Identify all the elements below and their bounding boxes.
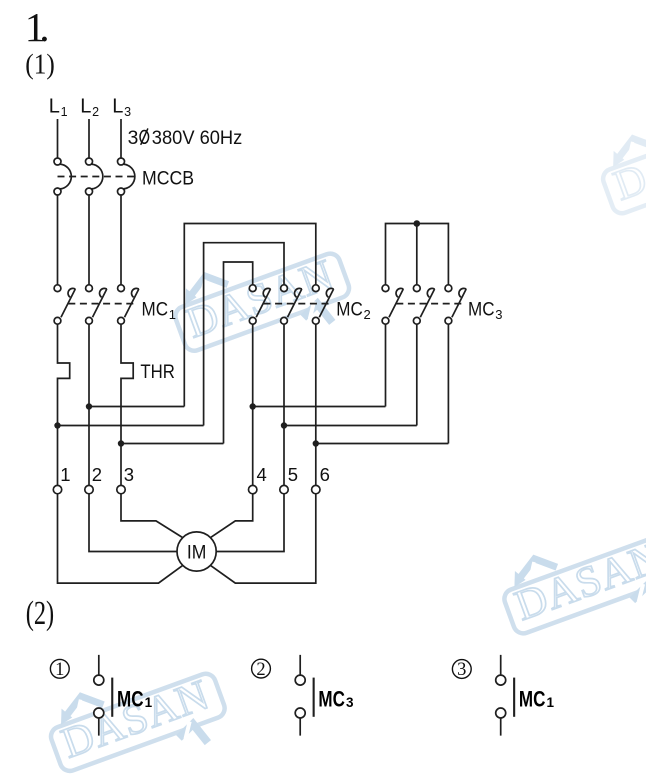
svg-text:1: 1	[60, 464, 70, 485]
svg-text:(2): (2)	[26, 595, 55, 632]
svg-text:L: L	[49, 95, 60, 117]
svg-text:3: 3	[124, 464, 134, 485]
svg-text:.: .	[39, 4, 49, 50]
svg-text:3: 3	[124, 105, 131, 119]
svg-text:L: L	[80, 95, 91, 117]
svg-text:3: 3	[495, 307, 502, 322]
svg-text:5: 5	[288, 464, 298, 485]
svg-text:3: 3	[346, 695, 354, 710]
svg-text:MC: MC	[336, 298, 363, 320]
svg-text:L: L	[112, 95, 123, 117]
svg-text:1: 1	[55, 660, 64, 680]
svg-text:MC: MC	[117, 687, 144, 712]
svg-text:1: 1	[169, 307, 176, 322]
svg-text:MC: MC	[519, 687, 546, 712]
svg-text:3: 3	[128, 128, 139, 149]
svg-text:6: 6	[320, 464, 330, 485]
svg-text:2: 2	[256, 660, 265, 680]
svg-text:MCCB: MCCB	[142, 168, 194, 190]
svg-text:2: 2	[92, 105, 99, 119]
svg-text:2: 2	[92, 464, 102, 485]
svg-text:(1): (1)	[25, 49, 55, 81]
svg-text:IM: IM	[187, 543, 207, 564]
svg-text:MC: MC	[142, 298, 169, 320]
svg-text:4: 4	[257, 464, 267, 485]
svg-text:MC: MC	[318, 687, 345, 712]
svg-text:THR: THR	[140, 361, 175, 383]
svg-text:2: 2	[364, 307, 371, 322]
svg-text:3: 3	[457, 660, 466, 680]
svg-text:1: 1	[547, 695, 555, 710]
svg-text:1: 1	[61, 105, 68, 119]
svg-text:380V 60Hz: 380V 60Hz	[152, 128, 243, 149]
svg-text:1: 1	[145, 695, 153, 710]
svg-text:MC: MC	[468, 298, 495, 320]
